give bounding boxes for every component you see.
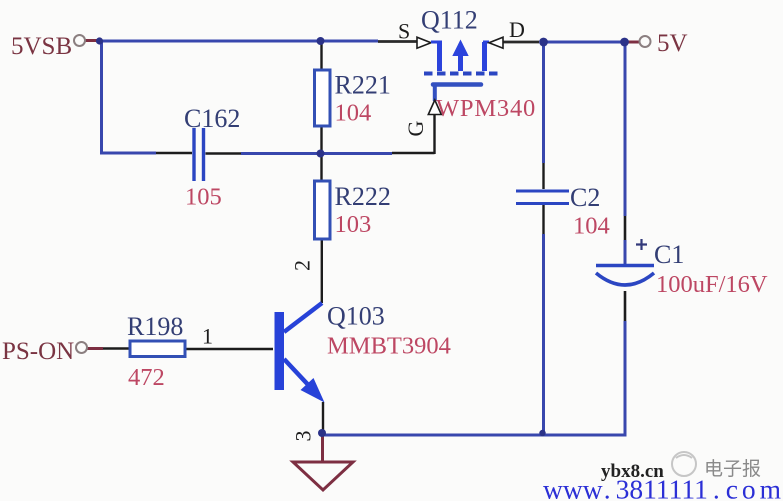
node R221 top junction xyxy=(317,37,325,45)
wire MOSFET drain pin lead (black) xyxy=(503,41,539,44)
transistor Q112 drain arrow xyxy=(489,37,503,48)
wire C1 pin stub above plate (blue) xyxy=(624,240,627,264)
transistor Q112 source arrow xyxy=(417,37,431,48)
wire C2 column upper blue xyxy=(542,42,545,163)
resistor R222 xyxy=(315,181,331,239)
svg-text:D: D xyxy=(509,17,525,42)
svg-text:472: 472 xyxy=(128,364,165,391)
transistor Q112 drain connection xyxy=(483,41,489,44)
transistor Q112 gate vertical xyxy=(433,85,437,102)
wire C1 column lower blue xyxy=(624,321,627,436)
wire top rail between C2 and C1 junctions xyxy=(543,41,624,44)
wire R221 bottom lead (black) xyxy=(320,127,322,152)
node C2 top junction xyxy=(539,38,548,47)
svg-text:100uF/16V: 100uF/16V xyxy=(656,271,768,298)
svg-text:G: G xyxy=(403,121,428,137)
svg-text:5VSB: 5VSB xyxy=(11,33,72,60)
capacitor C2 xyxy=(516,190,569,193)
capacitor C1 (electrolytic) xyxy=(596,264,654,267)
svg-text:C1: C1 xyxy=(654,240,684,269)
capacitor C162 xyxy=(192,128,195,181)
wire base lead (black) xyxy=(186,348,273,350)
transistor Q112 source bar xyxy=(437,41,442,72)
wire C1 column upper blue xyxy=(624,42,627,216)
svg-text:PS-ON: PS-ON xyxy=(2,338,74,365)
wire mid row left blue segment xyxy=(100,152,156,155)
transistor Q112 source connection xyxy=(431,41,440,44)
wire C1 top pin lead (black) xyxy=(624,216,627,240)
wire 5VSB stub (dark red) xyxy=(85,39,99,42)
wire C162 left pin lead (black) xyxy=(156,152,192,154)
transistor Q103 collector diagonal xyxy=(284,303,322,332)
watermark logo circle xyxy=(672,452,696,476)
transistor Q103 emitter arrowhead xyxy=(301,378,325,403)
svg-text:Q103: Q103 xyxy=(327,302,385,331)
op-amp? no: MOSFET Q112 xyxy=(417,37,503,114)
wire C2 bottom pin lead (black) xyxy=(542,205,544,234)
terminal circle PS-ON xyxy=(76,342,87,353)
transistor Q112 gate dashed channel line xyxy=(424,72,500,76)
wire R222 top lead (black) xyxy=(320,155,322,180)
wire 5V stub (dark red) xyxy=(628,41,640,44)
ground xyxy=(293,462,353,490)
wire gate lead horizontal (black) xyxy=(392,152,435,154)
wire C162 right pin lead (black) xyxy=(206,152,242,154)
wire emitter lead (black) xyxy=(322,402,324,431)
svg-text:2: 2 xyxy=(290,260,315,271)
svg-text:R222: R222 xyxy=(335,182,391,211)
wire gate lead vertical (black) xyxy=(433,115,435,154)
wire C1 bottom pin lead (black) xyxy=(624,291,627,321)
svg-text:105: 105 xyxy=(185,184,222,211)
svg-text:Q112: Q112 xyxy=(421,6,478,35)
transistor Q103 emitter diagonal xyxy=(284,359,313,390)
svg-text:S: S xyxy=(398,19,410,44)
wire C2 column lower blue xyxy=(542,234,545,434)
wire bottom rail xyxy=(322,434,627,437)
wire MOSFET source pin lead (black) xyxy=(378,40,417,43)
node R221 bottom junction xyxy=(317,150,325,158)
svg-text:WPM340: WPM340 xyxy=(436,95,536,122)
svg-text:104: 104 xyxy=(573,213,610,240)
wire mid row right blue segment xyxy=(241,152,392,155)
terminal circle 5V xyxy=(640,36,651,47)
node C2 bottom junction xyxy=(539,430,545,436)
transistor Q112 drain bar xyxy=(482,42,487,71)
node 5VSB corner junction xyxy=(96,37,103,44)
svg-text:R221: R221 xyxy=(335,71,391,100)
svg-text:104: 104 xyxy=(335,100,372,127)
wire R221 top lead (black) xyxy=(320,41,322,70)
resistor R221 xyxy=(315,70,331,126)
wire PS-ON stub (dark red) xyxy=(87,347,103,350)
transistor Q112 gate arrow xyxy=(428,100,441,115)
svg-text:103: 103 xyxy=(335,211,372,238)
svg-text:1: 1 xyxy=(202,324,213,349)
wire R222 bottom lead / collector wire (black) xyxy=(321,240,323,303)
transistor Q112 body arrow stem xyxy=(458,55,463,71)
node emitter junction xyxy=(318,429,326,437)
C1 plus sign xyxy=(636,239,647,250)
svg-text:R198: R198 xyxy=(127,312,183,341)
node C1 top junction xyxy=(620,38,629,47)
svg-text:MMBT3904: MMBT3904 xyxy=(327,333,451,360)
svg-text:C2: C2 xyxy=(570,183,600,212)
resistor R198 xyxy=(130,341,185,357)
wire C2 top pin lead (black) xyxy=(542,163,544,189)
wire left column vertical xyxy=(100,40,103,155)
wire ground stub (dark red) xyxy=(321,434,324,461)
svg-text:C162: C162 xyxy=(184,104,240,133)
wire R198 left lead (black) xyxy=(103,347,129,349)
transistor Q112 gate bar xyxy=(433,82,481,87)
transistor Q103 base bar xyxy=(275,312,285,390)
wire top rail from 5VSB corner to MOSFET source lead xyxy=(100,40,378,43)
terminal circle 5VSB xyxy=(74,35,85,46)
svg-text:www.3811111.com: www.3811111.com xyxy=(543,474,783,501)
transistor Q103 xyxy=(275,303,325,403)
svg-text:3: 3 xyxy=(291,431,316,442)
svg-text:5V: 5V xyxy=(657,30,688,57)
transistor Q112 body arrow xyxy=(452,40,468,57)
